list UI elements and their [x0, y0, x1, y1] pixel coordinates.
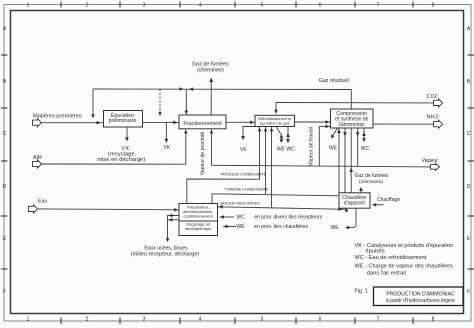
svg-text:VK: VK — [240, 147, 247, 153]
svg-text:Eaux usées, boues: Eaux usées, boues — [144, 245, 188, 251]
arrowhead VK at x241 — [241, 136, 245, 140]
input arrow matières premières — [33, 114, 82, 127]
label process condensate — [221, 172, 267, 176]
svg-text:WC - Eau de refroidissement: WC - Eau de refroidissement — [355, 255, 427, 261]
wire matières premières to épuration — [42, 122, 104, 124]
frame ticks left — [1, 55, 8, 269]
svg-text:conditionnement: conditionnement — [184, 214, 214, 219]
svg-text:7: 7 — [377, 317, 380, 323]
arrowhead header right at x182 — [179, 87, 183, 91]
svg-text:D: D — [467, 184, 471, 190]
svg-text:à partir d'hydrocarbures léger: à partir d'hydrocarbures légers — [386, 298, 455, 304]
wire VK drop at x166 — [165, 122, 167, 141]
arrowhead matières into épuration — [97, 121, 101, 125]
label gaz de fumées cheminée top — [192, 61, 229, 73]
wire vapeur de travail riser — [319, 126, 330, 166]
svg-text:l'ammoniac: l'ammoniac — [339, 122, 365, 128]
svg-text:Gaz résiduel: Gaz résiduel — [319, 78, 349, 84]
wire refroidissement to compression — [294, 121, 331, 123]
frame ticks bottom — [61, 318, 413, 325]
arrowhead BFW up into chaudière — [345, 208, 349, 212]
wire compression drop x345 — [344, 128, 346, 193]
label gaz de fumées chaudière — [355, 173, 389, 185]
svg-text:4: 4 — [199, 2, 202, 8]
arrowhead up into compression x339 — [337, 129, 341, 133]
svg-text:C02: C02 — [427, 94, 438, 100]
svg-text:F: F — [3, 289, 6, 295]
arrowhead cond up into refroidissement 2 — [264, 127, 268, 131]
wire refroidissement condensate drop 3 — [271, 127, 273, 208]
arrowhead WE down pair — [280, 139, 284, 143]
svg-text:Fractionnement: Fractionnement — [183, 121, 222, 127]
arrowhead chaudière steam into header — [349, 168, 353, 172]
title box — [374, 287, 464, 306]
arrowhead steam up into fractionnement — [210, 129, 214, 133]
svg-text:Gaz de fumées: Gaz de fumées — [192, 61, 229, 67]
arrowhead dashed drop — [158, 112, 162, 116]
svg-text:2: 2 — [86, 2, 89, 8]
wire turbine condensate — [212, 194, 339, 204]
svg-text:PRODUCTION D'AMMONIAC: PRODUCTION D'AMMONIAC — [386, 291, 455, 297]
svg-text:7: 7 — [377, 2, 380, 8]
arrowhead WC stub left — [220, 215, 224, 219]
arrowhead WE below compression — [331, 134, 334, 139]
box chaudière d'appoint — [339, 193, 370, 208]
wire gaz résiduel vertical from compression top — [350, 90, 352, 109]
wire process condensate — [187, 179, 260, 204]
box préparation déminéralisation conditionnement — [179, 204, 218, 236]
svg-text:TURBINE CONDENSATE: TURBINE CONDENSATE — [225, 187, 269, 191]
wire WC drop below compression — [363, 128, 365, 141]
svg-text:3: 3 — [143, 317, 146, 323]
wire dashed bypass drop — [159, 89, 161, 113]
frame ticks top — [61, 2, 413, 8]
frame ticks right — [468, 55, 474, 269]
svg-text:préliminaire: préliminaire — [109, 118, 137, 124]
svg-text:5: 5 — [261, 2, 264, 8]
arrowhead WC up pair — [286, 133, 290, 137]
wire WC stub into préparation — [220, 216, 235, 218]
box compression et synthèse de l'ammoniac — [331, 109, 374, 128]
svg-text:1: 1 — [27, 2, 30, 8]
label vapeur de procédé rotated — [200, 132, 206, 176]
box refroidissement et épuration du gaz — [255, 115, 295, 126]
svg-text:NH3: NH3 — [427, 114, 439, 120]
svg-text:F: F — [467, 289, 470, 295]
legend VK WC WE — [355, 243, 454, 277]
svg-text:épuisés: épuisés — [366, 249, 385, 255]
box épuration préliminaire — [104, 111, 143, 128]
svg-text:d'appoint: d'appoint — [344, 201, 366, 207]
arrowhead drain 2 left — [168, 218, 172, 222]
frame zone letters right — [467, 26, 471, 295]
fig label — [355, 289, 368, 295]
arrowhead sewer down — [166, 238, 170, 242]
wire chimney above fractionnement — [210, 81, 212, 115]
label gaz résiduel — [319, 78, 349, 84]
wire recycle vertical at x93 — [92, 89, 94, 117]
label WE chaudière loop — [331, 225, 340, 231]
wire junction drop into fractionnement — [185, 89, 187, 113]
arrowhead drain 1 left — [168, 214, 172, 218]
wire VK drop below épuration — [126, 127, 128, 139]
arrowhead into compression left vapeur — [326, 125, 330, 129]
arrowhead header left at x189.5 — [189, 87, 193, 91]
svg-text:8: 8 — [432, 317, 435, 323]
label eaux usées — [131, 245, 200, 257]
wire vapeur header — [212, 165, 431, 167]
label WE en prov — [236, 224, 308, 230]
label VK x166 — [164, 145, 171, 151]
wire compression drop x357.7 to header — [357, 128, 359, 166]
arrowhead BFW right before chaudière — [338, 207, 342, 211]
label VK x241 — [240, 147, 247, 153]
svg-text:D: D — [3, 184, 7, 190]
arrowhead WE loop left — [345, 226, 349, 230]
label WE WC below compression — [329, 146, 370, 152]
wire chauffage arrow line — [373, 204, 384, 206]
arrowhead into compression left — [326, 120, 330, 124]
output arrow vapeur — [422, 158, 440, 170]
wire chimney above chaudière — [360, 189, 362, 193]
output arrow CO2 — [427, 94, 443, 107]
box fractionnement — [179, 115, 226, 129]
arrowhead drop into fractionnement top — [185, 111, 189, 115]
svg-text:8: 8 — [432, 2, 435, 8]
svg-text:BOILER FEED WATER: BOILER FEED WATER — [221, 202, 261, 206]
label vapeur de travail rotated — [308, 127, 314, 166]
svg-text:Gaz de fumées: Gaz de fumées — [355, 173, 389, 179]
svg-text:3: 3 — [143, 2, 146, 8]
wire compression drop x339 — [338, 128, 340, 193]
svg-text:Fig. 1: Fig. 1 — [355, 289, 368, 295]
svg-text:(cheminée): (cheminée) — [359, 179, 383, 185]
svg-text:PROCESS CONDENSATE: PROCESS CONDENSATE — [221, 172, 267, 176]
wire WE loop below chaudière — [346, 208, 356, 227]
arrowhead VK at x166 — [165, 139, 169, 143]
wire épuration to fractionnement — [143, 121, 180, 123]
output arrow NH3 — [427, 114, 443, 128]
wire AIR to fractionnement — [42, 131, 186, 164]
arrowhead cond up into refroidissement 1 — [258, 127, 262, 131]
arrowhead BFW into préparation — [219, 205, 223, 209]
arrowhead WE up pair — [280, 134, 284, 138]
svg-text:2: 2 — [86, 317, 89, 323]
svg-text:en prov. des chaudières: en prov. des chaudières — [254, 224, 308, 230]
svg-text:C: C — [3, 131, 7, 137]
wire process steam into fractionnement — [211, 131, 213, 165]
svg-text:Matières premières: Matières premières — [33, 114, 82, 120]
label boiler feed water — [221, 202, 261, 206]
svg-text:mise en décharge): mise en décharge) — [97, 157, 145, 163]
wire eau to préparation — [38, 208, 180, 211]
svg-text:WC: WC — [361, 146, 370, 152]
wire préparation drains to sewer — [168, 216, 180, 241]
label VK recyclage — [97, 146, 145, 163]
svg-text:VK: VK — [164, 145, 171, 151]
arrowhead down on x357.7 — [356, 132, 360, 136]
svg-text:6: 6 — [319, 2, 322, 8]
wire refroidissement condensate drop 1 — [259, 127, 261, 180]
svg-text:atmosphérique: atmosphérique — [185, 226, 212, 231]
arrowhead WC down pair — [286, 139, 290, 143]
wire boiler feed water — [218, 207, 347, 210]
svg-text:Eau: Eau — [38, 199, 47, 205]
wire WE diagonal below compression — [332, 128, 337, 137]
svg-text:1: 1 — [27, 317, 30, 323]
wire WC drop below refroidissement — [287, 127, 289, 143]
svg-text:épuration du gaz: épuration du gaz — [260, 120, 290, 125]
wire préparation drain 2 — [168, 219, 180, 221]
wire refroidissement condensate drop 2 — [265, 127, 267, 195]
svg-text:WC: WC — [286, 146, 295, 152]
svg-text:Vapeur de procédé: Vapeur de procédé — [200, 132, 206, 176]
label chauffage — [377, 197, 400, 203]
wire fractionnement to refroidissement — [226, 121, 255, 123]
arrowhead into refroidissement left — [250, 121, 254, 125]
arrowhead into refroidissement top — [274, 110, 278, 114]
svg-text:(milieu récepteur, décharge): (milieu récepteur, décharge) — [131, 252, 200, 258]
svg-text:Vapeur: Vapeur — [422, 158, 439, 164]
wire VK stub from refroidissement box bottom left — [243, 127, 257, 139]
arrowhead eau into préparation — [174, 208, 178, 212]
label WC en prov — [236, 215, 322, 221]
arrowhead WE stub left — [223, 225, 227, 229]
svg-text:WE: WE — [277, 147, 286, 153]
wire CO2 line — [276, 102, 434, 104]
label WE WC below refroidissement — [277, 146, 295, 152]
wire WE diagonal below refroidissement — [276, 127, 281, 143]
frame zone letters left — [3, 26, 7, 295]
input arrow eau — [29, 199, 48, 213]
wire WE stub into préparation — [223, 225, 236, 227]
svg-text:6: 6 — [319, 317, 322, 323]
svg-text:5: 5 — [261, 317, 264, 323]
svg-text:en prov. divers des récepteurs: en prov. divers des récepteurs — [254, 215, 323, 221]
svg-text:Vapeur de travail: Vapeur de travail — [308, 127, 314, 166]
frame zone numbers bottom — [27, 317, 435, 323]
wire drop into refroidissement top — [275, 103, 277, 114]
wire NH3 line — [373, 123, 434, 125]
svg-text:Chauffage: Chauffage — [377, 197, 400, 203]
wire chaudière steam riser x351 — [350, 128, 352, 193]
arrowhead chimney fractionnement — [209, 78, 213, 83]
svg-text:WE: WE — [331, 225, 340, 231]
svg-text:WE: WE — [329, 146, 338, 152]
svg-text:C: C — [467, 131, 471, 137]
arrowhead into fractionnement left — [173, 121, 177, 125]
svg-text:WE: WE — [236, 224, 245, 230]
arrowhead cond up into refroidissement 3 — [270, 127, 274, 131]
svg-text:(cheminée): (cheminée) — [197, 68, 224, 74]
arrowhead down on x345 — [343, 132, 347, 136]
arrowhead WC down pair compression — [362, 138, 366, 142]
arrowhead WC up pair compression — [362, 132, 366, 136]
arrowhead recycle down at x93 — [91, 114, 95, 118]
input arrow AIR — [33, 155, 43, 168]
label turbine condensate — [225, 187, 269, 191]
wire recycle / gaz résiduel header y89 — [93, 88, 351, 91]
arrowhead VK below épuration — [125, 137, 129, 141]
svg-text:WC: WC — [236, 215, 245, 221]
svg-text:AIR: AIR — [33, 155, 42, 161]
svg-text:4: 4 — [199, 317, 202, 323]
arrowhead AIR up into fractionnement — [184, 129, 188, 133]
arrowhead chauffage into chaudière — [372, 203, 376, 207]
svg-text:WE - Charge de vapeur des cha: WE - Charge de vapeur des chaudières — [355, 264, 453, 270]
arrowhead chimney chaudière — [359, 187, 363, 191]
frame zone numbers top — [27, 2, 435, 8]
svg-text:dans l'air extrait: dans l'air extrait — [367, 271, 406, 277]
